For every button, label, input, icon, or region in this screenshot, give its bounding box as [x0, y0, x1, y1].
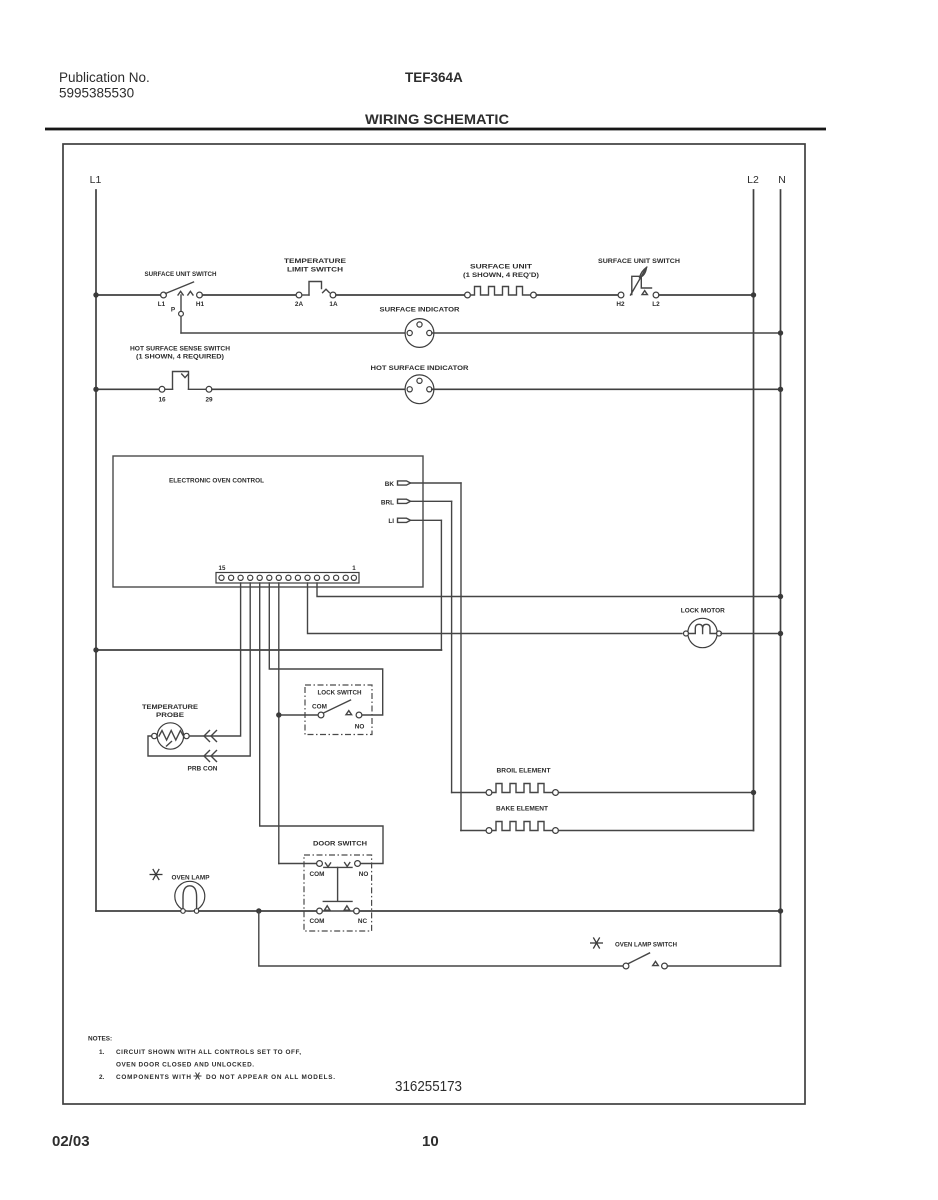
door switch top blade [324, 866, 352, 868]
wire: row2 left segment [181, 332, 407, 334]
junction dot N row3 [778, 387, 783, 392]
junction dot L1 LI row [93, 647, 98, 652]
wire: BK lead [411, 482, 462, 484]
schematic border frame [63, 144, 805, 1104]
oven lamp switch contact marker [653, 961, 659, 965]
connector LI tag [398, 518, 411, 522]
temperature limit switch terminal 2A [296, 292, 302, 298]
svg-text:COM: COM [310, 871, 325, 878]
heading rule [45, 128, 826, 131]
broil element right terminal [553, 790, 559, 796]
oven lamp switch left terminal [623, 963, 629, 969]
wire: L2 bus vertical [753, 190, 755, 831]
wire: probe lower loop to pin12 [148, 583, 250, 756]
oven lamp switch asterisk [590, 937, 603, 948]
wire: BK vertical run [460, 483, 462, 831]
temperature probe [152, 723, 190, 749]
sense switch terminal 16 [159, 386, 165, 392]
svg-text:DO NOT APPEAR ON ALL MODELS.: DO NOT APPEAR ON ALL MODELS. [206, 1074, 335, 1081]
svg-text:SURFACE UNIT SWITCH: SURFACE UNIT SWITCH [598, 258, 680, 265]
surface unit switch terminal L1 [161, 292, 167, 298]
wire: lamp row from L1 [96, 910, 181, 912]
svg-text:LI: LI [388, 518, 394, 525]
connector BK tag [398, 481, 411, 485]
svg-text:LOCK SWITCH: LOCK SWITCH [318, 690, 362, 697]
svg-text:316255173: 316255173 [395, 1079, 462, 1095]
svg-text:ELECTRONIC OVEN CONTROL: ELECTRONIC OVEN CONTROL [169, 478, 264, 485]
wire: row3 segment to hot surface indicator [212, 388, 407, 390]
junction dot lamp row tee [256, 908, 261, 913]
oven lamp switch right terminal [662, 963, 668, 969]
svg-text:HOT SURFACE SENSE SWITCH: HOT SURFACE SENSE SWITCH [130, 346, 230, 353]
wire: BRL vertical run [451, 501, 453, 792]
svg-text:16: 16 [158, 397, 166, 404]
wire: LI vertical run [440, 520, 442, 650]
junction dot L2 broil row [751, 790, 756, 795]
hot surface sense switch bump [173, 372, 189, 390]
terminal strip [216, 573, 359, 584]
connector BRL tag [398, 499, 411, 503]
wire: row1 segment to L2 bus [659, 294, 754, 296]
bake heating element [492, 822, 553, 831]
wire: probe upper lead to pin13 [189, 583, 240, 736]
svg-text:LOCK MOTOR: LOCK MOTOR [681, 608, 725, 615]
terminal strip pins [219, 575, 357, 580]
lock switch NO terminal [356, 712, 362, 718]
svg-text:PROBE: PROBE [156, 712, 185, 719]
wire: 16 stub [165, 388, 173, 390]
wire: BRL lead [411, 500, 452, 502]
junction dot N row2 [778, 330, 783, 335]
surface unit switch right terminal L2 [653, 292, 659, 298]
note 2 asterisk [194, 1073, 202, 1080]
door switch actuator link [323, 867, 352, 901]
svg-text:02/03: 02/03 [52, 1133, 90, 1150]
svg-text:NO: NO [355, 724, 365, 731]
wire: lock motor to N bus [721, 633, 781, 635]
junction dot N pin5 row [778, 594, 783, 599]
hot surface sense switch check marker [182, 374, 189, 378]
svg-text:COM: COM [310, 918, 325, 925]
temperature limit switch contact marker [323, 289, 330, 292]
lock switch COM terminal [318, 712, 324, 718]
svg-text:TEMPERATURE: TEMPERATURE [142, 704, 199, 711]
svg-text:COM: COM [312, 703, 327, 710]
door switch top contact marker 2 [345, 863, 350, 867]
svg-text:TEF364A: TEF364A [405, 70, 463, 85]
door switch bottom COM terminal [317, 908, 323, 914]
wire: pin9 into door switch COM [279, 863, 317, 865]
wire: row1 segment L1 to surface unit switch [96, 294, 161, 296]
wire: row3 segment L1 to terminal 16 [96, 388, 159, 390]
lock switch blade [324, 700, 351, 713]
bake element left terminal [486, 828, 492, 834]
wire: broil element to L2 bus [559, 792, 754, 794]
svg-text:BROIL ELEMENT: BROIL ELEMENT [497, 768, 551, 775]
door switch NO terminal [355, 861, 361, 867]
surface unit switch right blade [631, 268, 647, 296]
surface unit switch right step symbol [632, 276, 652, 294]
surface unit heating element [471, 287, 531, 296]
wire: P branch to row2 [180, 316, 182, 333]
svg-text:L1: L1 [158, 301, 166, 308]
junction dot N lock motor row [778, 631, 783, 636]
door switch top contact marker 1 [325, 863, 330, 867]
wire: row2 right segment to N bus [432, 332, 781, 334]
wire: BRL to broil element [452, 792, 486, 794]
wire: lamp row contacts gap [323, 910, 354, 912]
electronic oven control box [113, 456, 423, 587]
junction dot N lamp row [778, 908, 783, 913]
surface unit switch right flag [640, 268, 647, 278]
svg-text:L2: L2 [747, 174, 759, 186]
svg-text:WIRING SCHEMATIC: WIRING SCHEMATIC [365, 111, 509, 127]
wire: lamp row between lamp terminals [185, 910, 194, 912]
surface unit switch right terminal H2 [618, 292, 624, 298]
lock motor [684, 618, 722, 647]
wire: lamp switch to N bus corner [668, 965, 781, 967]
surface unit switch blade [166, 282, 194, 294]
oven lamp switch blade [629, 953, 650, 964]
wire: pin5 run to N bus row [317, 583, 781, 597]
wire: row3 right segment to N bus [432, 388, 781, 390]
wire: pin6 run to lock motor row [308, 583, 683, 634]
svg-text:DOOR SWITCH: DOOR SWITCH [313, 841, 367, 848]
probe lower connector chevrons [204, 751, 217, 762]
junction dot L2 row1 [751, 292, 756, 297]
svg-text:H1: H1 [196, 301, 205, 308]
svg-text:L2: L2 [652, 301, 660, 308]
svg-text:BRL: BRL [381, 499, 394, 506]
svg-text:NC: NC [358, 918, 368, 925]
oven lamp asterisk [150, 869, 163, 880]
wire: lock switch COM lead [282, 714, 319, 716]
oven lamp [175, 881, 205, 913]
svg-text:1A: 1A [329, 301, 338, 308]
svg-text:N: N [778, 174, 786, 186]
wire: BK to bake element [461, 830, 486, 832]
svg-text:OVEN LAMP: OVEN LAMP [172, 875, 211, 882]
wire: lamp row to door switch [199, 910, 317, 912]
svg-text:Publication No.: Publication No. [59, 70, 150, 85]
wire: LI lead [411, 519, 442, 521]
wire: lock switch NO loop to pin10 [269, 583, 382, 715]
svg-text:CIRCUIT SHOWN WITH ALL CONTROL: CIRCUIT SHOWN WITH ALL CONTROLS SET TO O… [116, 1049, 301, 1056]
svg-text:BAKE ELEMENT: BAKE ELEMENT [496, 806, 548, 813]
svg-text:BK: BK [385, 481, 395, 488]
surface indicator lamp [405, 319, 434, 348]
door switch dashed box [304, 855, 372, 931]
wire: pin9 vertical run [278, 583, 280, 864]
svg-text:OVEN LAMP SWITCH: OVEN LAMP SWITCH [615, 942, 677, 949]
svg-text:SURFACE UNIT SWITCH: SURFACE UNIT SWITCH [145, 271, 217, 278]
svg-text:H2: H2 [616, 301, 625, 308]
junction dot L1 row1 [93, 292, 98, 297]
door switch bottom NC terminal [354, 908, 360, 914]
surface unit switch right contact marker [642, 291, 647, 295]
svg-text:2A: 2A [295, 301, 304, 308]
svg-text:HOT SURFACE INDICATOR: HOT SURFACE INDICATOR [371, 365, 469, 372]
P branch terminal circle [179, 311, 184, 316]
broil heating element [492, 784, 553, 793]
svg-text:L1: L1 [90, 174, 102, 186]
wire: row1 segment 1A to surface unit element [336, 294, 465, 296]
wire: bump to terminal 29 [189, 388, 207, 390]
sense switch terminal 29 [206, 386, 212, 392]
wire: row1 segment element to surface unit switch right [537, 294, 619, 296]
door switch bottom contact marker 1 [324, 906, 330, 910]
hot surface indicator lamp [405, 375, 434, 404]
svg-text:PRB CON: PRB CON [188, 766, 218, 773]
broil element left terminal [486, 790, 492, 796]
probe upper connector chevrons [204, 731, 217, 742]
svg-text:10: 10 [422, 1133, 439, 1150]
wire: bake element to L2 bus end [559, 830, 754, 832]
wire: L1 bus vertical [95, 190, 97, 911]
junction dot L1 row3 [93, 387, 98, 392]
svg-text:NOTES:: NOTES: [88, 1036, 112, 1043]
svg-text:SURFACE UNIT: SURFACE UNIT [470, 264, 532, 271]
temperature limit switch terminal 1A [330, 292, 336, 298]
svg-text:1: 1 [352, 565, 356, 572]
temperature limit switch bump [309, 282, 322, 296]
svg-text:1.: 1. [99, 1049, 105, 1056]
svg-text:OVEN DOOR CLOSED AND UNLOCKED.: OVEN DOOR CLOSED AND UNLOCKED. [116, 1062, 254, 1069]
svg-text:TEMPERATURE: TEMPERATURE [284, 258, 347, 265]
svg-text:COMPONENTS WITH: COMPONENTS WITH [116, 1074, 191, 1081]
svg-text:15: 15 [219, 565, 226, 572]
wire: row1 segment H1 to temperature limit switch [203, 294, 297, 296]
svg-text:LIMIT SWITCH: LIMIT SWITCH [287, 267, 343, 274]
junction dot lock switch feed [276, 712, 281, 717]
door switch COM terminal [317, 861, 323, 867]
wire: lamp switch branch from tee [259, 911, 623, 966]
wire: 2A stub [302, 294, 309, 296]
wire: lamp row NC to N bus [360, 910, 781, 912]
svg-text:P: P [171, 307, 176, 314]
lock switch dashed box [305, 685, 372, 735]
wire: pin11 run to door switch NO [260, 583, 383, 864]
svg-text:2.: 2. [99, 1074, 105, 1081]
surface unit switch contact marker 2 [188, 291, 193, 295]
svg-text:(1 SHOWN, 4 REQUIRED): (1 SHOWN, 4 REQUIRED) [136, 354, 224, 361]
wire: N bus vertical [780, 190, 782, 966]
bake element right terminal [553, 828, 559, 834]
svg-text:(1 SHOWN, 4 REQ'D): (1 SHOWN, 4 REQ'D) [463, 272, 539, 279]
surface unit element right terminal [531, 292, 537, 298]
svg-text:5995385530: 5995385530 [59, 86, 134, 101]
surface unit element left terminal [465, 292, 471, 298]
lock switch contact marker [346, 711, 352, 715]
door switch bottom contact marker 2 [344, 906, 350, 910]
surface unit switch contact marker 1 [178, 291, 183, 295]
wire: row L1 to LI [96, 649, 441, 651]
svg-text:29: 29 [205, 397, 213, 404]
surface unit switch terminal H1 [197, 292, 203, 298]
svg-text:NO: NO [359, 871, 369, 878]
svg-text:SURFACE INDICATOR: SURFACE INDICATOR [380, 307, 460, 314]
wire: P branch down from switch [180, 295, 182, 311]
